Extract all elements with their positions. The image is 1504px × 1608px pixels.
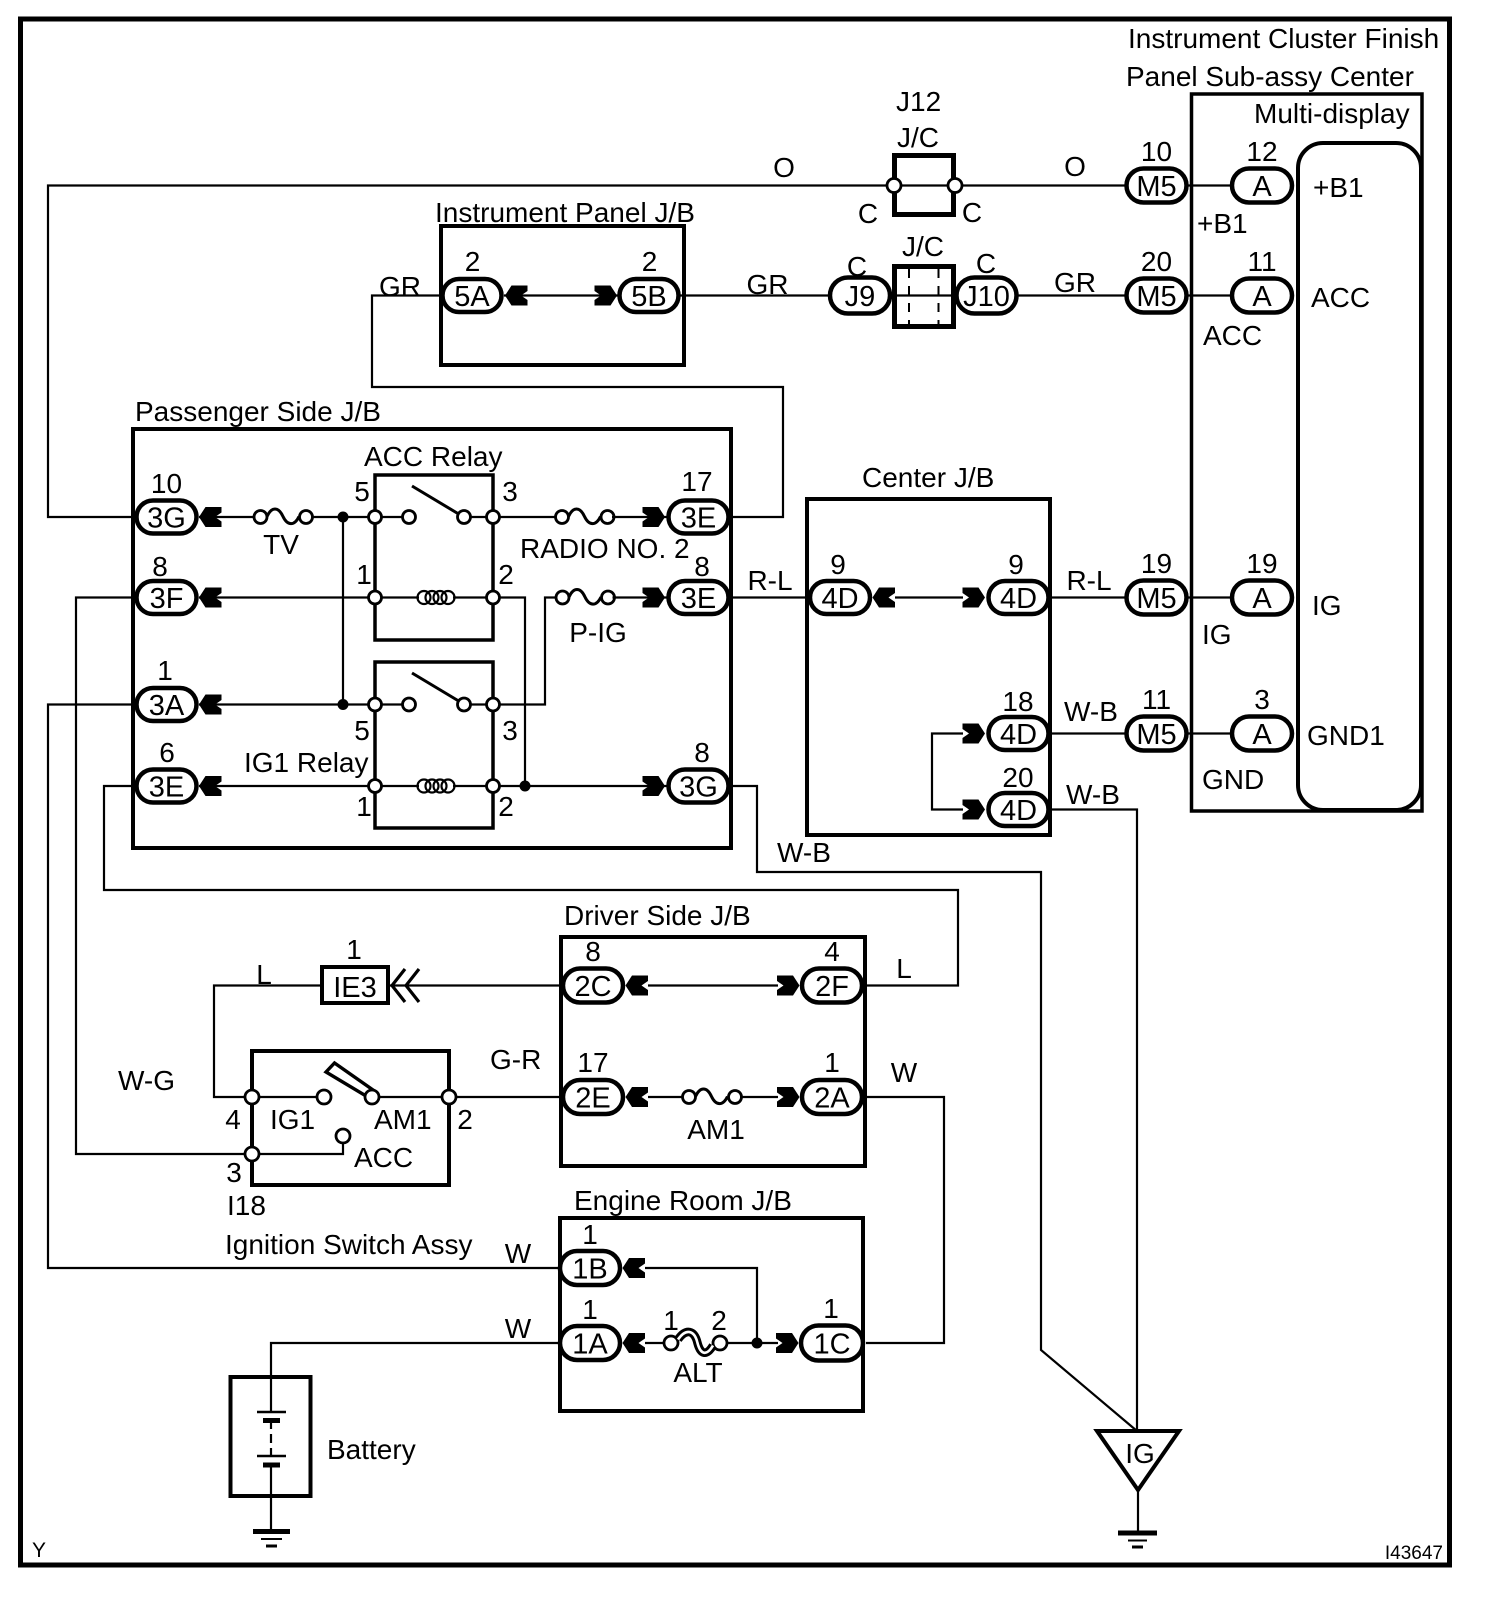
svg-text:W: W bbox=[505, 1313, 532, 1344]
ignition pin 2 bbox=[442, 1090, 473, 1135]
relay ACC box bbox=[375, 475, 493, 640]
ignition pin 3 bbox=[226, 1147, 259, 1188]
svg-text:2: 2 bbox=[457, 1104, 473, 1135]
multi-display unit U1 bbox=[1298, 143, 1421, 810]
svg-text:1C: 1C bbox=[813, 1329, 850, 1361]
svg-text:2: 2 bbox=[498, 791, 514, 822]
svg-text:P-IG: P-IG bbox=[569, 617, 627, 648]
svg-text:5B: 5B bbox=[631, 281, 666, 313]
wire label GR (at 5A) bbox=[379, 271, 421, 302]
wire 4D-18 to 4D-20 link bbox=[932, 734, 963, 810]
fuse AM1 bbox=[683, 1089, 745, 1145]
connector 1A pin 1 bbox=[560, 1294, 620, 1361]
svg-text:Multi-display: Multi-display bbox=[1254, 98, 1410, 129]
arrow into 3E-17 bbox=[643, 507, 666, 527]
svg-text:R-L: R-L bbox=[1066, 565, 1111, 596]
svg-text:5: 5 bbox=[354, 715, 370, 746]
connector A pin 11 bbox=[1232, 246, 1292, 313]
wire label L (at IE3) bbox=[256, 959, 272, 990]
center junction block box bbox=[807, 499, 1050, 835]
ground point IG bbox=[1097, 1431, 1179, 1490]
arrow into 2A bbox=[777, 1087, 800, 1107]
wire label R-L (left) bbox=[747, 565, 792, 596]
wire label W-B (18 row) bbox=[1064, 696, 1118, 727]
svg-text:4D: 4D bbox=[1000, 719, 1037, 751]
Center J/B label bbox=[862, 462, 994, 493]
IG1 relay coil pin 2 bbox=[487, 780, 514, 823]
junction connector J12 box bbox=[895, 156, 954, 215]
connector 3G pin 10 (battery) bbox=[137, 468, 197, 535]
svg-text:ACC: ACC bbox=[354, 1142, 413, 1173]
wire 3F to ACC relay coil pin 1 bbox=[199, 596, 375, 598]
wire ACC relay pin5 to contact bbox=[375, 516, 493, 518]
wire junction to IG1 relay pin 5 bbox=[342, 517, 344, 705]
wire L: IE3 to 2C bbox=[390, 984, 563, 986]
ACC relay coil pin 2 bbox=[487, 559, 514, 604]
wire ignition pin 4 to IG1 contact bbox=[252, 1096, 324, 1098]
wire W-B: 3G-8 to IG ground bbox=[728, 786, 1137, 1431]
svg-text:GR: GR bbox=[379, 271, 421, 302]
svg-text:O: O bbox=[1064, 151, 1086, 182]
svg-text:3G: 3G bbox=[679, 772, 718, 804]
svg-text:Instrument Cluster Finish: Instrument Cluster Finish bbox=[1128, 23, 1439, 54]
connector 5A pin 2 bbox=[443, 246, 502, 313]
svg-text:2: 2 bbox=[465, 246, 481, 277]
relay IG1 box bbox=[375, 662, 493, 828]
wire GR: J10 to M5-20 bbox=[1016, 294, 1126, 296]
svg-text:TV: TV bbox=[263, 529, 299, 560]
wire 5A to 5B internal bbox=[504, 294, 618, 296]
IG1 Relay label bbox=[244, 747, 369, 778]
J/C internal dashed cavity lines bbox=[909, 269, 939, 325]
wire 3A to IG1 relay pin 5 bbox=[199, 703, 375, 705]
battery cell plates bbox=[257, 1377, 286, 1529]
svg-text:3E: 3E bbox=[681, 583, 716, 615]
IG1 relay pin 5 bbox=[354, 698, 381, 746]
svg-text:5A: 5A bbox=[454, 281, 490, 313]
svg-text:1: 1 bbox=[346, 934, 362, 965]
arrow into 5A bbox=[505, 286, 528, 306]
svg-text:IE3: IE3 bbox=[333, 972, 377, 1004]
svg-text:M5: M5 bbox=[1136, 719, 1176, 751]
svg-text:O: O bbox=[773, 152, 795, 183]
svg-text:I43647: I43647 bbox=[1385, 1543, 1443, 1564]
svg-text:Instrument Panel J/B: Instrument Panel J/B bbox=[435, 197, 695, 228]
net label ACC bbox=[1203, 320, 1262, 351]
svg-text:IG1 Relay: IG1 Relay bbox=[244, 747, 369, 778]
wire label W-B (3G-8) bbox=[777, 837, 831, 868]
svg-text:C: C bbox=[962, 197, 982, 228]
svg-text:9: 9 bbox=[830, 549, 846, 580]
svg-text:8: 8 bbox=[694, 737, 710, 768]
svg-text:20: 20 bbox=[1002, 762, 1033, 793]
svg-text:Driver Side J/B: Driver Side J/B bbox=[564, 900, 751, 931]
svg-text:1: 1 bbox=[157, 655, 173, 686]
svg-text:3: 3 bbox=[226, 1157, 242, 1188]
wire O: battery feed to M5-10 bbox=[48, 186, 1126, 518]
connector 3E pin 17 bbox=[669, 466, 729, 535]
wire 2E to AM1 fuse bbox=[648, 1096, 684, 1098]
node ALT-1B junction bbox=[752, 1338, 763, 1349]
svg-text:I18: I18 bbox=[227, 1190, 266, 1221]
svg-text:8: 8 bbox=[152, 551, 168, 582]
arrow into 3G-8 bbox=[643, 776, 666, 796]
connector 2C pin 8 bbox=[563, 936, 623, 1003]
net label +B1 bbox=[1197, 208, 1248, 239]
ground (battery) bbox=[253, 1532, 290, 1547]
wire M5-19 to A-19 bbox=[1188, 596, 1232, 598]
ACC relay coil pin 1 bbox=[356, 559, 381, 604]
wire label O (right) bbox=[1064, 151, 1086, 182]
svg-text:W: W bbox=[505, 1238, 532, 1269]
connector 3E pin 8 bbox=[669, 551, 729, 615]
svg-text:ALT: ALT bbox=[673, 1357, 722, 1388]
J/C label (J9-J10) bbox=[902, 231, 944, 262]
svg-text:W-G: W-G bbox=[118, 1065, 175, 1096]
svg-text:19: 19 bbox=[1141, 548, 1172, 579]
svg-text:R-L: R-L bbox=[747, 565, 792, 596]
J12 left terminal C bbox=[858, 179, 901, 230]
connector 4D pin 9 (right) bbox=[989, 549, 1049, 615]
svg-text:3F: 3F bbox=[150, 583, 184, 615]
svg-text:A: A bbox=[1252, 583, 1272, 615]
ACC Relay label bbox=[364, 441, 502, 472]
svg-text:17: 17 bbox=[681, 466, 712, 497]
wire W-B: 4D-18 to M5-11 bbox=[1048, 732, 1126, 734]
svg-text:IG: IG bbox=[1125, 1438, 1155, 1469]
connector A pin 19 bbox=[1232, 548, 1292, 615]
arrow into 2F bbox=[777, 976, 800, 996]
arrow into 1B bbox=[623, 1258, 646, 1278]
ground (IG) bbox=[1118, 1533, 1157, 1547]
svg-text:8: 8 bbox=[694, 551, 710, 582]
wire 1A to ALT link bbox=[645, 1342, 666, 1344]
node 3A junction bbox=[338, 699, 349, 710]
IG1 relay coil pin 1 bbox=[356, 780, 381, 823]
junction connector J/C (J9-J10) box bbox=[895, 267, 954, 327]
chevron arrows at IE3 bbox=[392, 969, 419, 1002]
svg-text:1: 1 bbox=[356, 791, 372, 822]
svg-text:1: 1 bbox=[356, 559, 372, 590]
J12 right terminal C bbox=[948, 179, 982, 229]
arrow into 2E bbox=[626, 1087, 649, 1107]
svg-text:2F: 2F bbox=[815, 971, 849, 1003]
ignition contact AM1 bbox=[365, 1090, 432, 1135]
svg-text:4D: 4D bbox=[1000, 795, 1037, 827]
svg-text:W-B: W-B bbox=[777, 837, 831, 868]
fuse RADIO NO. 2 bbox=[520, 509, 690, 564]
drawing number I43647 bbox=[1385, 1543, 1443, 1564]
connector A pin 3 bbox=[1232, 684, 1292, 751]
engine room junction block box bbox=[560, 1218, 863, 1411]
node TV-relay junction bbox=[338, 512, 349, 523]
ACC relay contact bbox=[403, 511, 416, 524]
net label GND bbox=[1202, 764, 1264, 795]
IG1 relay contact bbox=[403, 698, 416, 711]
wire M5-10 to A-12 bbox=[1188, 184, 1232, 186]
svg-text:18: 18 bbox=[1002, 686, 1033, 717]
svg-text:3G: 3G bbox=[147, 503, 186, 535]
pin label +B1 (display) bbox=[1313, 172, 1364, 203]
wire label W (2A) bbox=[891, 1057, 918, 1088]
arrow into 3A bbox=[199, 695, 222, 715]
svg-text:3A: 3A bbox=[149, 690, 185, 722]
driver side junction block box bbox=[561, 937, 865, 1166]
svg-text:L: L bbox=[896, 953, 912, 984]
svg-text:Passenger Side J/B: Passenger Side J/B bbox=[135, 396, 381, 427]
svg-text:IG: IG bbox=[1312, 590, 1342, 621]
battery B1 box bbox=[231, 1377, 311, 1496]
connector M5 pin 20 bbox=[1127, 246, 1187, 313]
ignition contact IG1 bbox=[270, 1090, 331, 1135]
svg-text:4: 4 bbox=[824, 936, 840, 967]
svg-text:1: 1 bbox=[582, 1219, 598, 1250]
svg-text:2: 2 bbox=[642, 246, 658, 277]
svg-text:M5: M5 bbox=[1136, 171, 1176, 203]
wire label R-L (right) bbox=[1066, 565, 1111, 596]
net label IG bbox=[1202, 619, 1232, 650]
ACC relay switch arm bbox=[412, 486, 462, 516]
svg-text:2: 2 bbox=[498, 559, 514, 590]
wire AM1 fuse to 2A bbox=[740, 1096, 778, 1098]
svg-text:ACC: ACC bbox=[1311, 282, 1370, 313]
wire 3E-6 to IG1 coil pin 1 bbox=[199, 785, 375, 787]
ignition switch lever bbox=[326, 1063, 375, 1098]
wire IG1 coil pin 2 to 3G-8 bbox=[500, 785, 668, 787]
wire W: 3A to 1B bbox=[48, 705, 560, 1269]
svg-text:M5: M5 bbox=[1136, 583, 1176, 615]
svg-text:10: 10 bbox=[151, 468, 182, 499]
connector 5B pin 2 bbox=[620, 246, 679, 313]
connector A pin 12 bbox=[1232, 136, 1292, 203]
Engine Room J/B label bbox=[574, 1185, 792, 1216]
svg-text:A: A bbox=[1252, 171, 1272, 203]
svg-text:GR: GR bbox=[1054, 267, 1096, 298]
arrow into 3G bbox=[199, 507, 222, 527]
wire GR through J/C J9-J10 bbox=[890, 294, 958, 296]
svg-text:M5: M5 bbox=[1136, 281, 1176, 313]
svg-text:20: 20 bbox=[1141, 246, 1172, 277]
arrow into 4D-18 bbox=[963, 724, 986, 744]
svg-text:W-B: W-B bbox=[1066, 779, 1120, 810]
svg-text:AM1: AM1 bbox=[374, 1104, 432, 1135]
svg-text:19: 19 bbox=[1246, 548, 1277, 579]
wire L: 3E-6 net to 2F bbox=[104, 786, 958, 986]
wire W-G: 3F to ignition ACC bbox=[76, 598, 246, 1155]
svg-text:3: 3 bbox=[502, 715, 518, 746]
Ignition Switch Assy label bbox=[225, 1229, 472, 1260]
connector 3A pin 1 bbox=[137, 655, 197, 722]
connector J9 terminal C bbox=[830, 251, 890, 314]
svg-text:J9: J9 bbox=[845, 281, 876, 313]
ACC relay arm contact bbox=[458, 511, 471, 524]
IG1 relay arm contact bbox=[458, 698, 471, 711]
wire label G-R bbox=[490, 1044, 541, 1075]
svg-text:5: 5 bbox=[354, 476, 370, 507]
svg-text:J/C: J/C bbox=[897, 122, 939, 153]
svg-text:1: 1 bbox=[824, 1047, 840, 1078]
svg-text:GND: GND bbox=[1202, 764, 1264, 795]
arrow into 1A bbox=[623, 1333, 646, 1353]
pin label IG (display) bbox=[1312, 590, 1342, 621]
arrow into 4D-20 bbox=[963, 800, 986, 820]
svg-text:2A: 2A bbox=[814, 1083, 850, 1115]
svg-text:+B1: +B1 bbox=[1197, 208, 1248, 239]
svg-text:1: 1 bbox=[582, 1294, 598, 1325]
svg-text:RADIO NO. 2: RADIO NO. 2 bbox=[520, 533, 690, 564]
connector 4D pin 20 bbox=[989, 762, 1049, 827]
svg-text:17: 17 bbox=[577, 1047, 608, 1078]
svg-text:3E: 3E bbox=[149, 772, 184, 804]
svg-text:ACC: ACC bbox=[1203, 320, 1262, 351]
ignition pin 4 bbox=[225, 1090, 259, 1135]
wire W-B: 4D-20 to IG ground bbox=[1048, 810, 1137, 1432]
connector M5 pin 19 bbox=[1127, 548, 1187, 615]
svg-text:1A: 1A bbox=[572, 1329, 608, 1361]
IG1 relay switch arm bbox=[412, 673, 462, 703]
wire label O (left) bbox=[773, 152, 795, 183]
svg-text:1: 1 bbox=[823, 1293, 839, 1324]
pin label ACC (display) bbox=[1311, 282, 1370, 313]
wire G-R: ignition pin 2 to 2E bbox=[456, 1096, 563, 1098]
svg-text:Panel Sub-assy Center: Panel Sub-assy Center bbox=[1126, 61, 1414, 92]
wire 1B to ALT junction bbox=[645, 1268, 757, 1343]
svg-text:A: A bbox=[1252, 719, 1272, 751]
connector M5 pin 10 bbox=[1127, 136, 1187, 203]
arrow into 1C bbox=[776, 1333, 799, 1353]
wire GR: 5B to J9 bbox=[679, 294, 830, 296]
svg-text:C: C bbox=[858, 198, 878, 229]
connector IE3 pin 1 bbox=[322, 934, 388, 1004]
wire W: battery to 1A bbox=[271, 1343, 560, 1377]
Instrument Panel J/B label bbox=[435, 197, 695, 228]
ACC relay pin 5 bbox=[354, 476, 381, 524]
connector 2A pin 1 bbox=[802, 1047, 862, 1115]
wire R-L: 3E-8 to 4D-9 bbox=[728, 596, 810, 598]
arrow into 3F bbox=[199, 588, 222, 608]
connector 2E pin 17 bbox=[563, 1047, 623, 1115]
svg-text:10: 10 bbox=[1141, 136, 1172, 167]
svg-text:11: 11 bbox=[1142, 684, 1171, 715]
wire P-IG fuse to 3E-8 bbox=[613, 596, 668, 598]
wire RADIO fuse to 3E-17 bbox=[612, 516, 667, 518]
connector 2F pin 4 bbox=[802, 936, 862, 1003]
svg-text:2E: 2E bbox=[575, 1083, 610, 1115]
arrow into 5B bbox=[595, 286, 618, 306]
svg-text:J10: J10 bbox=[963, 281, 1010, 313]
ignition switch designator I18 bbox=[227, 1190, 266, 1221]
svg-text:Center J/B: Center J/B bbox=[862, 462, 994, 493]
connector J10 terminal C bbox=[957, 248, 1017, 314]
svg-text:IG1: IG1 bbox=[270, 1104, 315, 1135]
svg-text:2C: 2C bbox=[574, 971, 611, 1003]
fuse P-IG bbox=[556, 590, 627, 649]
svg-text:IG: IG bbox=[1202, 619, 1232, 650]
wire 4D-9 to 4D-9 internal bbox=[895, 596, 963, 598]
wire M5-20 to A-11 bbox=[1188, 294, 1232, 296]
svg-text:Engine Room J/B: Engine Room J/B bbox=[574, 1185, 792, 1216]
wire 3G to TV fuse bbox=[199, 516, 256, 518]
svg-text:3E: 3E bbox=[681, 503, 716, 535]
Multi-display label bbox=[1254, 98, 1410, 129]
svg-text:G-R: G-R bbox=[490, 1044, 541, 1075]
wire label W-B (20 row) bbox=[1066, 779, 1120, 810]
ACC relay coil bbox=[375, 591, 493, 604]
svg-text:4D: 4D bbox=[821, 583, 858, 615]
connector 1B pin 1 bbox=[560, 1219, 620, 1286]
connector 3E pin 6 bbox=[137, 737, 197, 804]
wire 2C to 2F internal bbox=[648, 984, 778, 986]
svg-text:AM1: AM1 bbox=[687, 1114, 745, 1145]
connector 3F pin 8 bbox=[137, 551, 197, 615]
svg-text:W-B: W-B bbox=[1064, 696, 1118, 727]
svg-text:C: C bbox=[976, 248, 996, 279]
connector 4D pin 18 bbox=[989, 686, 1049, 751]
wire ACC coil pin2 down to IG1 coil output bbox=[500, 598, 526, 787]
svg-text:3: 3 bbox=[1254, 684, 1270, 715]
svg-text:J12: J12 bbox=[896, 86, 941, 117]
wire label GR (right) bbox=[1054, 267, 1096, 298]
wire L: ignition pin 4 to IE3 bbox=[214, 986, 320, 1098]
wire label GR (mid) bbox=[747, 269, 789, 300]
connector 1C pin 1 bbox=[801, 1293, 863, 1361]
svg-text:1B: 1B bbox=[572, 1254, 607, 1286]
svg-text:GND1: GND1 bbox=[1307, 720, 1385, 751]
svg-text:12: 12 bbox=[1246, 136, 1277, 167]
svg-text:J/C: J/C bbox=[902, 231, 944, 262]
wire M5-11 to A-3 bbox=[1188, 732, 1232, 734]
svg-text:4: 4 bbox=[225, 1104, 241, 1135]
svg-text:Y: Y bbox=[32, 1539, 46, 1562]
wire GR: 3E-17 to 5A bbox=[372, 296, 783, 518]
wire IG1 pin3 up to P-IG fuse bbox=[500, 598, 558, 705]
ACC relay pin 3 bbox=[487, 476, 518, 524]
pin label GND1 (display) bbox=[1307, 720, 1385, 751]
passenger side junction block box bbox=[133, 429, 731, 848]
Driver Side J/B label bbox=[564, 900, 751, 931]
svg-text:3: 3 bbox=[502, 476, 518, 507]
Battery label bbox=[327, 1434, 416, 1465]
connector 3G pin 8 bbox=[669, 737, 729, 804]
wire label W-G bbox=[118, 1065, 175, 1096]
Instrument Cluster Finish Panel Sub-assy Center title bbox=[1126, 23, 1439, 92]
wire ACC relay pin 3 to RADIO fuse bbox=[500, 516, 558, 518]
svg-text:9: 9 bbox=[1008, 549, 1024, 580]
arrow into 4D-9 left bbox=[873, 588, 896, 608]
svg-text:C: C bbox=[847, 251, 867, 282]
wire IG triangle to ground bbox=[1137, 1490, 1139, 1531]
svg-text:8: 8 bbox=[585, 936, 601, 967]
wire label W (1B) bbox=[505, 1238, 532, 1269]
instrument panel junction block box bbox=[441, 226, 684, 365]
svg-text:ACC Relay: ACC Relay bbox=[364, 441, 502, 472]
instrument cluster finish panel box bbox=[1192, 94, 1423, 811]
node coil output junction bbox=[520, 781, 531, 792]
IG1 relay pin 3 bbox=[487, 698, 518, 746]
wire ALT link to 1C bbox=[727, 1342, 778, 1344]
wire R-L: 4D-9 to M5-19 bbox=[1048, 596, 1126, 598]
svg-text:+B1: +B1 bbox=[1313, 172, 1364, 203]
wire IG1 relay pin5 to contact bbox=[375, 703, 493, 705]
arrow into 2C bbox=[626, 976, 649, 996]
connector 4D pin 9 (left) bbox=[810, 549, 870, 615]
svg-text:Ignition Switch Assy: Ignition Switch Assy bbox=[225, 1229, 472, 1260]
wire TV fuse to ACC relay pin 5 bbox=[304, 516, 375, 518]
svg-text:4D: 4D bbox=[1000, 583, 1037, 615]
wire ACC contact to pin 3 bbox=[252, 1141, 343, 1154]
IG1 relay coil bbox=[375, 780, 493, 793]
wire label W (1A) bbox=[505, 1313, 532, 1344]
